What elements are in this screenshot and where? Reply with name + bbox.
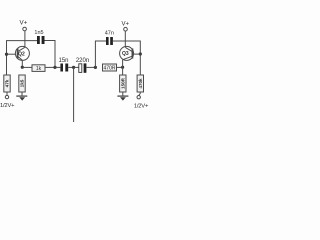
wire node C drop to bottom edge bbox=[73, 67, 75, 122]
resistor 1k bbox=[22, 65, 55, 72]
wire Q2 emitter drop bbox=[21, 60, 23, 67]
svg-text:Q2: Q2 bbox=[18, 51, 25, 57]
capacitor 220n polarized bbox=[74, 58, 96, 73]
wire V+ left drop bbox=[24, 31, 26, 47]
svg-text:15n: 15n bbox=[58, 58, 68, 64]
node E bbox=[121, 66, 124, 69]
capacitor 1n5 bbox=[34, 30, 44, 44]
terminal 1/2V+ right bbox=[134, 96, 149, 110]
wire 1n5 right to node B drop bbox=[45, 41, 56, 68]
svg-text:1/2V+: 1/2V+ bbox=[0, 103, 15, 109]
node right rail base junction bbox=[139, 52, 142, 55]
power terminal V+ right bbox=[121, 21, 129, 31]
svg-text:470R: 470R bbox=[104, 66, 116, 72]
svg-text:47k: 47k bbox=[5, 79, 10, 87]
node A bbox=[21, 66, 24, 69]
resistor 470k vertical bbox=[137, 75, 143, 95]
resistor 150R vertical bbox=[120, 75, 126, 96]
node D bbox=[94, 66, 97, 69]
wire Q2 base bbox=[7, 53, 18, 55]
svg-text:1k: 1k bbox=[36, 66, 42, 72]
wire Q3 emitter drop and to resistor bbox=[122, 60, 124, 75]
svg-text:150R: 150R bbox=[120, 77, 125, 89]
wire V+ right drop bbox=[124, 31, 126, 47]
svg-text:1k5: 1k5 bbox=[20, 79, 25, 87]
node C bbox=[72, 66, 75, 69]
wire 47n left drop bbox=[95, 41, 106, 67]
wire left rail bbox=[6, 54, 8, 75]
svg-text:470k: 470k bbox=[138, 78, 143, 89]
resistor 470R bbox=[103, 64, 123, 72]
wire right rail lower bbox=[139, 54, 141, 75]
transistor Q2 bbox=[15, 46, 29, 60]
node grid junction bbox=[5, 53, 8, 56]
power terminal V+ left bbox=[20, 20, 28, 31]
svg-text:220n: 220n bbox=[76, 58, 89, 64]
transistor Q3 bbox=[120, 46, 134, 60]
resistor 47k vertical bbox=[4, 75, 10, 95]
terminal 1/2V+ left bbox=[0, 95, 15, 108]
svg-text:V+: V+ bbox=[20, 20, 28, 27]
node B bbox=[53, 66, 56, 69]
ground left bbox=[16, 96, 27, 101]
wire 47n right to right rail bbox=[113, 41, 140, 54]
ground right bbox=[117, 96, 128, 101]
wire top-left horizontal (grid to 1n5) bbox=[7, 41, 38, 54]
svg-text:47n: 47n bbox=[105, 30, 114, 36]
svg-text:V+: V+ bbox=[121, 21, 129, 27]
svg-text:Q3: Q3 bbox=[122, 51, 129, 57]
capacitor 15n bbox=[55, 58, 74, 72]
svg-text:1n5: 1n5 bbox=[34, 30, 43, 36]
resistor 1k5 vertical bbox=[19, 75, 25, 96]
capacitor 47n bbox=[105, 30, 114, 45]
wire Q3 base bbox=[133, 53, 140, 55]
svg-text:1/2V+: 1/2V+ bbox=[134, 103, 149, 109]
